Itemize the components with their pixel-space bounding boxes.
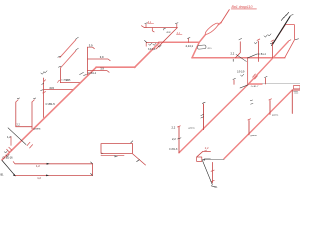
red label underline 2 — [176, 33, 182, 35]
R1 left tick — [13, 162, 15, 164]
svg-text:2,2: 2,2 — [205, 146, 209, 150]
double tick on D1 end — [7, 147, 12, 152]
outlet end tick — [211, 185, 214, 188]
corner fitting small horizontal — [197, 151, 211, 156]
tick top riser x44 — [43, 92, 46, 93]
R2 lower line — [101, 155, 124, 157]
tick top x270 — [269, 99, 272, 100]
black tick H1b left end — [145, 40, 147, 42]
top branch end tick — [141, 26, 144, 28]
tick mid riser x43 — [41, 83, 44, 90]
leader to outlet — [202, 160, 212, 184]
dashes left of top branch — [145, 22, 148, 25]
tick riser179 mid — [178, 138, 181, 139]
tick top x265 — [265, 76, 268, 77]
tick top D2 — [288, 40, 291, 41]
dash top x234 — [233, 78, 236, 79]
leader bottom-left 2 — [2, 160, 15, 175]
riser x152 — [152, 28, 154, 32]
apartment diagonal D5a — [60, 40, 76, 58]
red label underline — [148, 22, 154, 24]
leader arrowhead — [13, 174, 16, 176]
svg-text:1,2: 1,2 — [37, 176, 41, 180]
dash near wall ticks — [290, 15, 298, 40]
tick top D5b — [76, 48, 79, 50]
svg-text:В1: В1 — [215, 186, 219, 189]
top-right loop diagonal — [272, 25, 294, 58]
riser x272 — [271, 42, 273, 58]
svg-text:3,9 3,9: 3,9 3,9 — [148, 48, 156, 51]
svg-text:Ст.В1-7: Ст.В1-7 — [251, 86, 259, 88]
label St V1-2 leader — [80, 72, 84, 74]
R2 tail diagonal — [133, 154, 146, 165]
outlet rectangle R1 right edge — [92, 164, 94, 176]
riser V1 — [15, 102, 17, 127]
leader St V1-7 — [240, 85, 248, 88]
svg-text:длина: длина — [251, 135, 258, 137]
drop vertical x247 to H5 — [247, 58, 249, 84]
tick above junction x174 — [176, 24, 178, 27]
right riser x292 — [291, 90, 293, 113]
outlet rectangle R1 top — [15, 163, 93, 165]
arrow R2 bottom-left — [101, 153, 103, 155]
pipe diagonal D3 — [179, 84, 249, 153]
riser x258 — [257, 41, 259, 61]
svg-text:Ст.В1-2: Ст.В1-2 — [88, 72, 97, 75]
svg-text:3,9: 3,9 — [100, 66, 104, 70]
svg-text:Вв1 dнар110: Вв1 dнар110 — [232, 5, 253, 9]
svg-text:3,9 3,9: 3,9 3,9 — [237, 71, 245, 74]
pipe diagonal D2 — [249, 42, 289, 84]
title underline — [231, 8, 256, 10]
riser x44 — [43, 78, 45, 118]
R1 arrows — [46, 163, 50, 176]
svg-text:2,2: 2,2 — [231, 52, 235, 56]
marks on riser x43 — [41, 71, 47, 74]
riser x249 — [248, 121, 250, 135]
drop diagonal from top branch — [156, 28, 177, 49]
dash at tick top — [187, 37, 190, 40]
svg-text:Ст.В1-5: Ст.В1-5 — [46, 102, 56, 106]
tick below H2 — [232, 59, 234, 61]
corner fitting box — [197, 157, 202, 161]
jog at x240 — [236, 42, 241, 58]
outlet riser x212 — [212, 162, 214, 183]
thin reference line right — [262, 83, 300, 85]
branch y89.6 to main — [44, 89, 73, 91]
tick top x258 — [257, 39, 260, 40]
tail arrow mark — [137, 160, 140, 162]
glyphs left edge — [250, 100, 253, 104]
riser x11 bottom left — [10, 137, 12, 146]
check at D1b junction — [158, 45, 161, 47]
red tick under 2,2 — [205, 149, 207, 152]
apartment diagonal D5b — [60, 51, 76, 68]
leader crossing H2 — [236, 54, 247, 61]
red tick riser x43 — [44, 80, 46, 82]
inlet rise to title — [221, 10, 229, 23]
svg-text:3,9: 3,9 — [89, 44, 93, 48]
gamma marks on top branch — [164, 29, 166, 30]
branch y48 with hook — [87, 47, 94, 49]
svg-text:Ø15: Ø15 — [208, 48, 213, 50]
leader right St V1-4 — [248, 54, 258, 58]
pipe horizontal H5 — [249, 83, 263, 85]
svg-text:Ст.В1-4: Ст.В1-4 — [258, 53, 267, 56]
arrows mid riser x203 — [201, 114, 204, 118]
double tick on D1 low — [27, 142, 33, 148]
main pipe horizontal H1b — [159, 41, 200, 43]
tick top x203 — [202, 102, 205, 103]
dash top x272 — [270, 42, 273, 45]
wall crossing black diagonal — [272, 17, 290, 46]
dashes under valve box — [294, 91, 298, 93]
right corner horizontal — [292, 89, 300, 91]
svg-text:Ст.В1-8: Ст.В1-8 — [169, 148, 178, 151]
svg-text:Ст.В1-16: Ст.В1-16 — [3, 156, 14, 159]
outlet riser ticks — [211, 170, 214, 182]
riser x203 — [203, 104, 205, 130]
main supply pipe D1 (lower-left diagonal riser run) — [2, 67, 96, 160]
svg-text:3,9: 3,9 — [100, 55, 104, 59]
branch y60 with hook — [87, 59, 110, 61]
junction arc — [58, 80, 61, 82]
check marks top right — [264, 34, 271, 37]
leader bottom-left 1 — [8, 128, 26, 145]
main pipe diagonal D1b — [135, 42, 160, 67]
svg-text:длина: длина — [34, 128, 41, 131]
mark top x240 — [239, 38, 242, 39]
R1 corner ticks — [91, 162, 93, 176]
check marks left cluster — [149, 43, 157, 45]
outlet rectangle R1 bottom — [15, 174, 93, 176]
tick H1b x188 — [188, 39, 190, 43]
valve box right edge — [293, 86, 300, 89]
tick on D3 — [253, 74, 258, 79]
gray dash on dark horizontal — [204, 158, 210, 160]
label 5 above junction — [175, 22, 178, 25]
svg-text:Ст.В1-1: Ст.В1-1 — [61, 79, 69, 81]
svg-text:В1: В1 — [1, 173, 5, 176]
check right cluster — [241, 74, 244, 76]
svg-text:длина: длина — [189, 128, 196, 130]
tick top x272 — [271, 40, 274, 41]
svg-text:1,2: 1,2 — [7, 135, 11, 139]
dashes above V1 V2 — [17, 97, 36, 100]
tick top D5a — [76, 37, 79, 39]
riser x60 — [59, 68, 61, 83]
tick top x249 — [248, 119, 251, 120]
thin H1b extension — [147, 41, 159, 43]
svg-text:2,2: 2,2 — [172, 137, 176, 141]
svg-text:1,2: 1,2 — [36, 164, 40, 168]
branch y82.6 to main — [60, 82, 79, 84]
dashes near V87 bottom junction — [84, 74, 87, 77]
sleeve oval on inlet — [204, 22, 220, 36]
ticks tops V1 V2 — [16, 100, 35, 102]
riser x270 — [269, 101, 271, 115]
main pipe horizontal H2 — [192, 57, 285, 59]
inlet diagonal with sleeve — [206, 23, 221, 34]
tick riser179 top — [178, 126, 181, 127]
svg-text:длина: длина — [272, 114, 279, 116]
main pipe horizontal H1 — [96, 66, 135, 68]
svg-text:2,2: 2,2 — [17, 124, 21, 127]
dark horizontal under corner — [202, 159, 224, 161]
inlet drop Z-bend — [192, 34, 206, 58]
riser V2 — [31, 102, 33, 129]
wall hatch ticks — [281, 12, 288, 20]
pipe diagonal D4 — [224, 90, 292, 159]
checks near x258 top — [254, 42, 257, 44]
riser x265 — [265, 78, 267, 84]
check marks near D1 start — [4, 151, 9, 157]
riser stub x146 — [145, 24, 147, 27]
svg-text:4,14,1: 4,14,1 — [186, 44, 194, 48]
gray arrow under R2 — [115, 155, 119, 157]
red tick left cluster — [145, 43, 147, 47]
riser x179 — [178, 127, 180, 153]
riser stub x234 — [233, 80, 235, 84]
base dashes D5 — [58, 56, 61, 67]
R2 corner tick — [131, 141, 133, 143]
dark arrow left end — [202, 159, 205, 161]
riser x87 — [86, 47, 88, 75]
branch y71 with hook — [87, 71, 109, 73]
connector V1-V2 — [16, 126, 32, 128]
svg-text:Ø20: Ø20 — [50, 87, 55, 90]
tank rectangle R2 — [101, 144, 133, 154]
meter capsule — [197, 45, 206, 49]
top branch horizontal — [144, 27, 177, 29]
svg-text:2,2: 2,2 — [172, 125, 176, 129]
